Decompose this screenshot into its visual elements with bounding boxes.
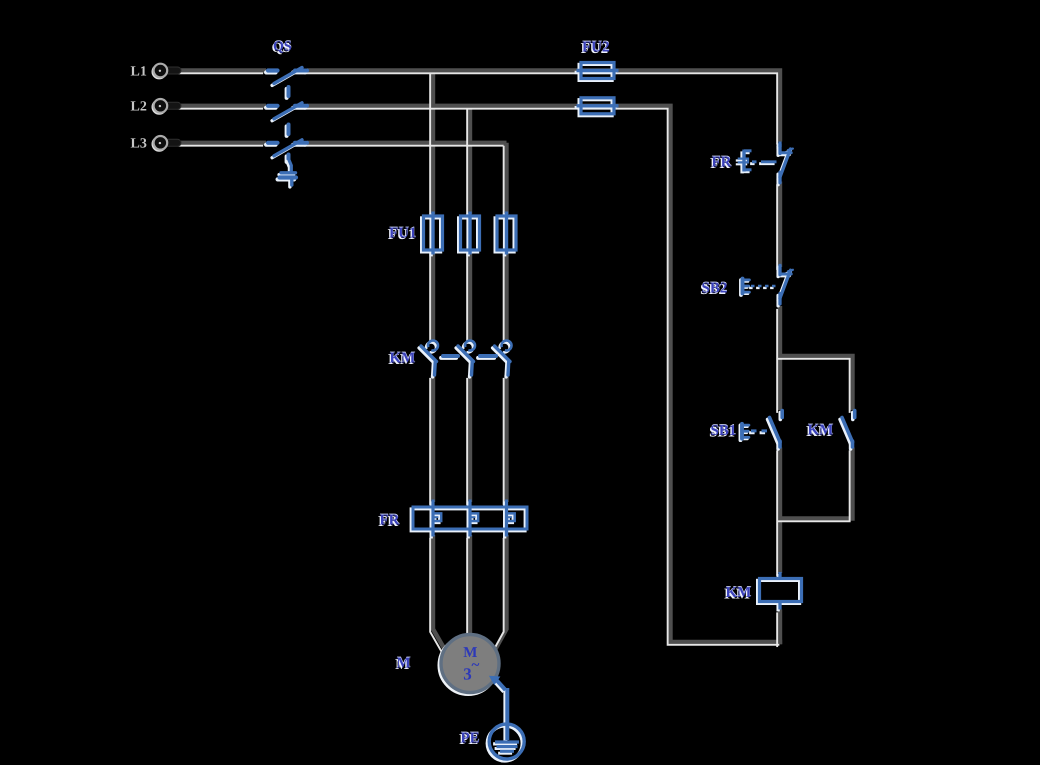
svg-text:SB1: SB1 (711, 423, 737, 439)
svg-text:QS: QS (273, 40, 292, 55)
PE ground assembly (487, 676, 524, 761)
wire control main SB1 to coil (778, 448, 782, 574)
fuse FU2 lower (575, 98, 619, 116)
QS operating handle (278, 160, 296, 187)
svg-text:KM: KM (726, 585, 752, 601)
SB1 button actuator (741, 424, 749, 440)
wire drop2 KM to FR box (468, 375, 472, 502)
contactor KM auxiliary NO contact (840, 411, 855, 449)
svg-text:L2: L2 (131, 100, 147, 115)
fuse FU1 phase 3 (495, 212, 516, 257)
svg-text:~: ~ (472, 658, 480, 674)
stop button SB2 NC contact (778, 265, 793, 306)
terminal L3 (152, 136, 181, 151)
thermal relay FR heater box (411, 500, 527, 539)
FR trip paddle (736, 150, 752, 174)
wire control main FR to SB2 (778, 182, 782, 268)
wire drop3 FU1 to KM (504, 250, 508, 341)
svg-text:FR: FR (712, 155, 732, 171)
wire L2 row left (181, 104, 266, 108)
start button SB1 NO contact (768, 411, 783, 449)
svg-text:3: 3 (463, 665, 472, 684)
wire L3 row left (181, 141, 266, 145)
svg-text:L1: L1 (131, 64, 147, 79)
thermal relay FR NC contact (778, 142, 793, 185)
terminal L1 (152, 64, 181, 79)
wire highlight layer (178, 73, 850, 652)
wire L2 row, return vertical and bottom run to coil (307, 106, 782, 642)
svg-text:FR: FR (380, 513, 400, 529)
wire drop3 from L3 (504, 143, 508, 214)
svg-text:M: M (397, 656, 411, 672)
disconnect switch QS pole 3 (266, 140, 307, 158)
svg-text:FU2: FU2 (582, 40, 610, 56)
wire drop1 KM to FR box (431, 375, 435, 502)
wire L3 row after QS (307, 141, 507, 145)
contactor KM coil (758, 572, 802, 611)
wire L1 row to top-right corner down to FR contact (307, 71, 780, 142)
wire drop2 FU1 to KM (468, 250, 472, 341)
contactor KM main contact pole 3 (493, 340, 512, 376)
wire branch KM aux to bottom (780, 448, 853, 519)
terminal L2 (152, 99, 181, 114)
fuse FU1 phase 2 (459, 212, 480, 257)
wire drop1 FR box to motor (433, 535, 445, 649)
SB1 dashed link (749, 431, 772, 433)
wire branch top to KM aux (780, 356, 853, 410)
fuse FU1 phase 1 (422, 212, 443, 257)
wire drop3 FR box to motor (496, 535, 507, 649)
wire control main SB2 to SB1 (778, 306, 782, 410)
KM main contacts link dashes (441, 356, 496, 358)
svg-text:L3: L3 (131, 137, 147, 152)
wire drop3 KM to FR box (504, 375, 508, 502)
wire drop2 from L2 (468, 106, 472, 214)
QS mechanical link dashed line (287, 87, 289, 162)
disconnect switch QS pole 1 (266, 68, 307, 86)
contactor KM main contact pole 2 (456, 340, 475, 376)
contactor KM main contact pole 1 (419, 340, 438, 376)
SB2 button actuator (741, 279, 749, 295)
fuse FU2 upper (575, 63, 619, 81)
svg-text:FU1: FU1 (389, 226, 417, 242)
svg-text:KM: KM (390, 351, 416, 367)
motor M 3~ (439, 635, 499, 695)
wire coil to bottom run (778, 610, 782, 645)
wire L1 row left (181, 68, 266, 72)
FR contact dashed link (750, 162, 776, 164)
disconnect switch QS pole 2 (266, 103, 307, 121)
svg-text:KM: KM (808, 423, 834, 439)
wire drop2 FR box to motor (468, 535, 472, 636)
wire drop1 from L1 (431, 71, 435, 215)
svg-text:SB2: SB2 (702, 281, 728, 297)
svg-text:PE: PE (461, 731, 480, 747)
SB2 dashed link (749, 286, 777, 288)
gray wire layer (181, 71, 853, 650)
wire drop1 FU1 to KM (431, 250, 435, 341)
